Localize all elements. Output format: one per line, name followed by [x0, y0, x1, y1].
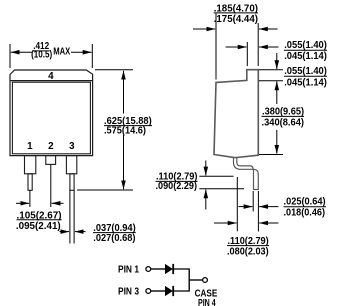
side view body outline — [214, 70, 258, 158]
svg-text:.095(2.41): .095(2.41) — [16, 221, 61, 232]
svg-text:.045(1.14): .045(1.14) — [284, 51, 327, 62]
svg-text:.575(14.6): .575(14.6) — [104, 126, 146, 137]
svg-text:MAX: MAX — [53, 47, 70, 58]
dimension .105/.095 pin pitch — [16, 164, 64, 207]
dimension .110/.080 foot length — [214, 177, 278, 231]
dimension .185/.175 body thickness — [193, 14, 278, 80]
svg-text:2: 2 — [48, 141, 54, 152]
wire D2 to node — [173, 290, 189, 292]
svg-text:.380(9.65): .380(9.65) — [262, 107, 304, 118]
svg-text:.018(0.46): .018(0.46) — [284, 208, 326, 219]
dimension .110/.090 lead foot height — [199, 161, 244, 210]
pin 2 — [46, 156, 56, 165]
diode D2 — [165, 286, 173, 296]
wire D1 to node — [173, 268, 189, 270]
svg-text:PIN 1: PIN 1 — [118, 265, 139, 276]
svg-text:.175(4.44): .175(4.44) — [214, 14, 258, 25]
front view package body outline — [10, 70, 93, 156]
svg-text:(10.5): (10.5) — [31, 50, 52, 61]
svg-text:.055(1.40): .055(1.40) — [284, 40, 327, 51]
svg-text:1: 1 — [27, 141, 33, 152]
terminal circle pin 3 — [146, 289, 151, 294]
svg-text:.025(0.64): .025(0.64) — [284, 197, 326, 208]
svg-text:.055(1.40): .055(1.40) — [284, 66, 327, 77]
pin 3 — [66, 156, 76, 191]
body inner rectangle — [12, 82, 90, 154]
lead (side view) — [234, 157, 259, 189]
svg-text:PIN 3: PIN 3 — [118, 287, 139, 298]
dimension .055/.045 tab step height — [259, 53, 283, 81]
svg-text:.027(0.68): .027(0.68) — [93, 233, 135, 244]
wire node to case terminal — [189, 279, 203, 281]
wire pin3 to diode D2 — [151, 290, 165, 292]
pin 1 — [25, 156, 36, 191]
svg-text:.340(8.64): .340(8.64) — [262, 118, 305, 129]
svg-text:PIN 4: PIN 4 — [198, 298, 216, 306]
dimension .055/.045 tab width — [226, 42, 279, 66]
dimension .380/.340 body height — [259, 82, 283, 155]
dimension .037/.027 pin width — [60, 190, 86, 243]
svg-text:3: 3 — [69, 141, 75, 152]
svg-text:.080(2.03): .080(2.03) — [227, 246, 269, 257]
tab separator line — [10, 80, 93, 82]
dimension .025/.018 lead thickness — [238, 191, 278, 232]
case terminal circle — [203, 278, 208, 283]
wire pin1 to diode D1 — [151, 268, 165, 270]
dimension .625/.575 height — [77, 70, 133, 190]
dimension .412 MAX width — [10, 44, 92, 68]
svg-text:.045(1.14): .045(1.14) — [284, 78, 327, 89]
diode D1 — [165, 264, 173, 274]
svg-text:.090(2.29): .090(2.29) — [156, 181, 198, 192]
terminal circle pin 1 — [146, 267, 151, 272]
svg-text:4: 4 — [48, 71, 54, 82]
joining wire node — [188, 268, 190, 291]
